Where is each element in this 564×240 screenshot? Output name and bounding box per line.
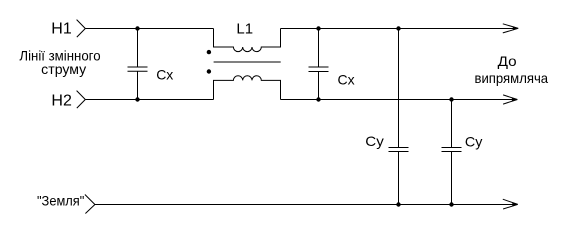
capacitor Cx2 plates [309,67,329,72]
junction node H1-Cx2 [316,26,320,30]
capacitor Cy2 wire bottom [451,152,453,205]
svg-text:H2: H2 [51,92,72,109]
capacitor Cx2 wire top [318,29,320,68]
capacitor Cy1 wire top [398,29,400,148]
svg-text:L1: L1 [236,20,253,37]
svg-text:До: До [498,53,517,69]
junction node ground-Cy1 [396,202,400,206]
svg-text:Cx: Cx [338,72,355,88]
junction node H1-Cx1 [135,26,139,30]
wire H1 left segment [85,28,213,30]
junction node H2-Cx2 [316,97,320,101]
arrowhead ground output [503,199,518,209]
wire ground [95,204,517,206]
phase dot winding 1 [207,50,211,54]
svg-text:H1: H1 [51,21,72,38]
svg-text:струму: струму [41,61,86,77]
capacitor Cy2 wire top [451,100,453,148]
choke L1 bottom winding [214,76,281,100]
capacitor Cy1 plates [389,148,409,152]
junction node H2-Cy2 [449,97,453,101]
arrowhead H2 tip fill [512,98,518,102]
svg-text:Cy: Cy [365,133,384,149]
junction node H1-Cy1 [396,26,400,30]
arrowhead ground tip fill [512,202,518,206]
wire H2 left segment [85,99,213,101]
capacitor Cx1 plates [128,67,148,71]
choke L1 core [214,61,281,63]
terminal chevron ground [85,195,95,214]
terminal chevron H2 [77,91,86,109]
capacitor Cx1 wire bottom [137,71,139,99]
svg-text:Cx: Cx [156,67,173,83]
wire H2 right segment [281,99,518,101]
capacitor Cx1 wire top [137,29,139,68]
arrowhead H1 tip fill [513,26,519,30]
arrowhead H2 output [503,95,517,104]
phase dot winding 2 [207,69,211,73]
choke L1 top winding [214,29,281,52]
junction node H2-Cx1 [135,97,139,101]
capacitor Cy1 wire bottom [398,152,400,205]
svg-text:випрямляча: випрямляча [475,70,549,86]
junction node ground-Cy2 [449,202,453,206]
capacitor Cy2 plates [442,148,462,152]
terminal chevron H1 [77,20,86,37]
capacitor Cx2 wire bottom [318,72,320,100]
arrowhead H1 output [503,24,519,33]
wire H1 right segment [281,28,518,30]
svg-text:Cy: Cy [465,133,483,149]
svg-text:"Земля": "Земля" [37,193,84,209]
